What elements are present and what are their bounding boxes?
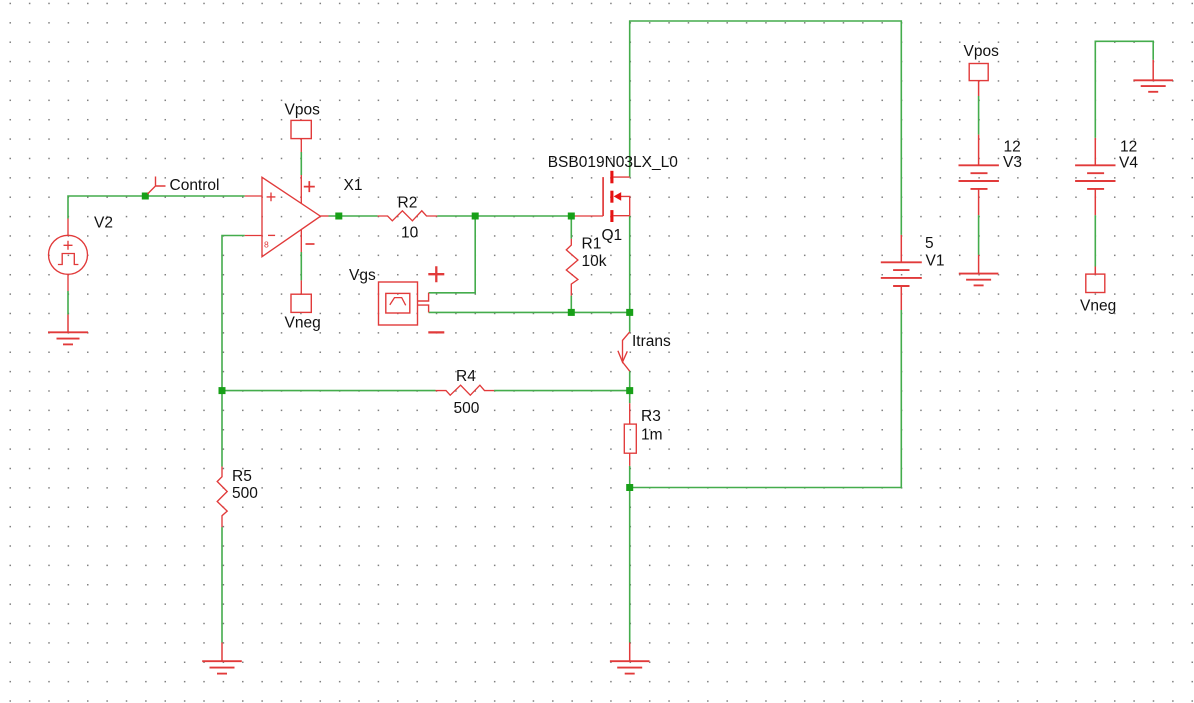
ground (above right, for V4 top): [1133, 60, 1173, 92]
terminal Vpos (op-amp): [291, 120, 311, 138]
probe Itrans (current probe arrow): [618, 332, 630, 371]
wire op-amp Vpos pin middle: [300, 152, 302, 175]
terminal Vneg (op-amp): [291, 294, 311, 312]
svg-text:Vpos: Vpos: [964, 43, 1000, 60]
wire node to Vgs plus: [429, 216, 476, 293]
svg-text:10k: 10k: [582, 253, 607, 270]
ground (bottom middle, below R3): [610, 643, 650, 674]
wire bottom node to V1 bottom: [630, 310, 902, 488]
svg-text:R4: R4: [456, 368, 476, 385]
wire op-amp output to R2: [329, 215, 378, 217]
svg-text:R3: R3: [641, 408, 661, 425]
wire V2 bottom to ground: [67, 291, 69, 315]
wire Vgs minus row: [429, 311, 630, 313]
svg-text:Q1: Q1: [602, 227, 623, 244]
node R2/Vgs junction: [472, 213, 479, 220]
ground (bottom left, below R5): [202, 643, 242, 674]
ground (below V3): [959, 255, 999, 286]
net label Control (probe flag): [148, 177, 166, 195]
wire R2 to Q1 gate: [437, 215, 575, 217]
wire V2 top to Control node: [68, 196, 245, 219]
wire R4 node to R3: [629, 391, 631, 404]
wire Itrans to R4 node: [629, 371, 631, 390]
wire Q1 drain loop to V1: [630, 21, 902, 235]
op-amp U1 / X1 triangle: [245, 139, 329, 295]
resistor R5: [217, 467, 227, 528]
wire R3 bottom to node: [629, 466, 631, 488]
svg-text:V3: V3: [1003, 154, 1022, 171]
wire V4 top to ground elbow: [1095, 41, 1153, 138]
node Itrans/R4 junction: [626, 387, 633, 394]
wire R4 right segment: [494, 390, 630, 392]
svg-text:Vneg: Vneg: [1080, 298, 1116, 315]
svg-text:10: 10: [401, 225, 419, 242]
wire bottom node to ground: [629, 488, 631, 643]
wire op-amp Vneg pin middle: [300, 252, 302, 280]
svg-text:X1: X1: [344, 177, 363, 194]
node source/Vgs-minus junction: [626, 309, 633, 316]
wire into Itrans probe: [629, 312, 631, 332]
svg-text:R2: R2: [398, 194, 418, 211]
wire R1 top stub: [570, 216, 572, 239]
ground (below V2): [48, 315, 88, 345]
node R3 bottom junction: [626, 484, 633, 491]
terminal Vpos (V3 top): [969, 64, 988, 81]
terminal Vneg (V4 bottom): [1086, 267, 1105, 293]
resistor R2: [378, 211, 438, 221]
wire R5 bottom to ground: [221, 527, 223, 642]
wire R4 left segment: [222, 390, 436, 392]
svg-text:Vneg: Vneg: [285, 315, 321, 332]
resistor R1: [566, 239, 578, 296]
wire V3 lower: [978, 215, 980, 255]
wire op-amp inverting feedback down to R4/R5 column: [222, 236, 245, 467]
node R4/R5 junction: [219, 387, 226, 394]
svg-text:Control: Control: [170, 177, 220, 194]
node Control junction: [142, 193, 149, 200]
svg-text:Itrans: Itrans: [632, 333, 671, 350]
voltage source V2 (pulse): [49, 219, 88, 292]
wire V3 upper: [978, 96, 980, 135]
resistor R3 (box style): [624, 403, 636, 466]
svg-text:1m: 1m: [641, 427, 663, 444]
node R1 bottom junction: [568, 309, 575, 316]
wire Q1 source down: [629, 216, 631, 313]
svg-text:Vgs: Vgs: [349, 267, 376, 284]
battery V1: [881, 235, 922, 310]
probe Vgs (differential voltage probe): [379, 266, 445, 332]
svg-text:V4: V4: [1119, 154, 1138, 171]
svg-text:12: 12: [1004, 138, 1021, 155]
svg-text:R5: R5: [232, 468, 252, 485]
svg-text:5: 5: [925, 235, 934, 252]
wire R1 bottom stub: [570, 296, 572, 313]
battery V3: [959, 81, 999, 216]
transistor Q1 (NMOS BSB019N03LX_L0): [575, 171, 630, 222]
node gate/R1 junction: [568, 213, 575, 220]
svg-text:500: 500: [232, 485, 258, 502]
svg-text:500: 500: [454, 400, 480, 417]
svg-text:12: 12: [1120, 138, 1137, 155]
svg-text:Vpos: Vpos: [285, 102, 321, 119]
svg-text:V2: V2: [94, 214, 113, 231]
svg-text:8: 8: [264, 239, 269, 249]
svg-text:BSB019N03LX_L0: BSB019N03LX_L0: [548, 154, 679, 171]
resistor R4: [436, 385, 495, 395]
wire V4 lower: [1094, 215, 1096, 266]
battery V4: [1075, 138, 1115, 215]
node op-amp output junction: [335, 213, 342, 220]
svg-text:R1: R1: [582, 236, 602, 253]
svg-text:V1: V1: [926, 252, 945, 269]
